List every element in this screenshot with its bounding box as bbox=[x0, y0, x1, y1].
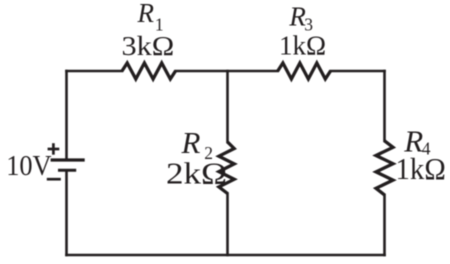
svg-text:3kΩ: 3kΩ bbox=[122, 31, 175, 61]
svg-text:2kΩ: 2kΩ bbox=[166, 157, 227, 191]
svg-text:10V: 10V bbox=[6, 149, 51, 181]
svg-text:R: R bbox=[181, 125, 201, 160]
svg-text:1kΩ: 1kΩ bbox=[279, 31, 326, 61]
svg-text:1kΩ: 1kΩ bbox=[396, 152, 446, 186]
svg-text:R: R bbox=[137, 0, 155, 28]
